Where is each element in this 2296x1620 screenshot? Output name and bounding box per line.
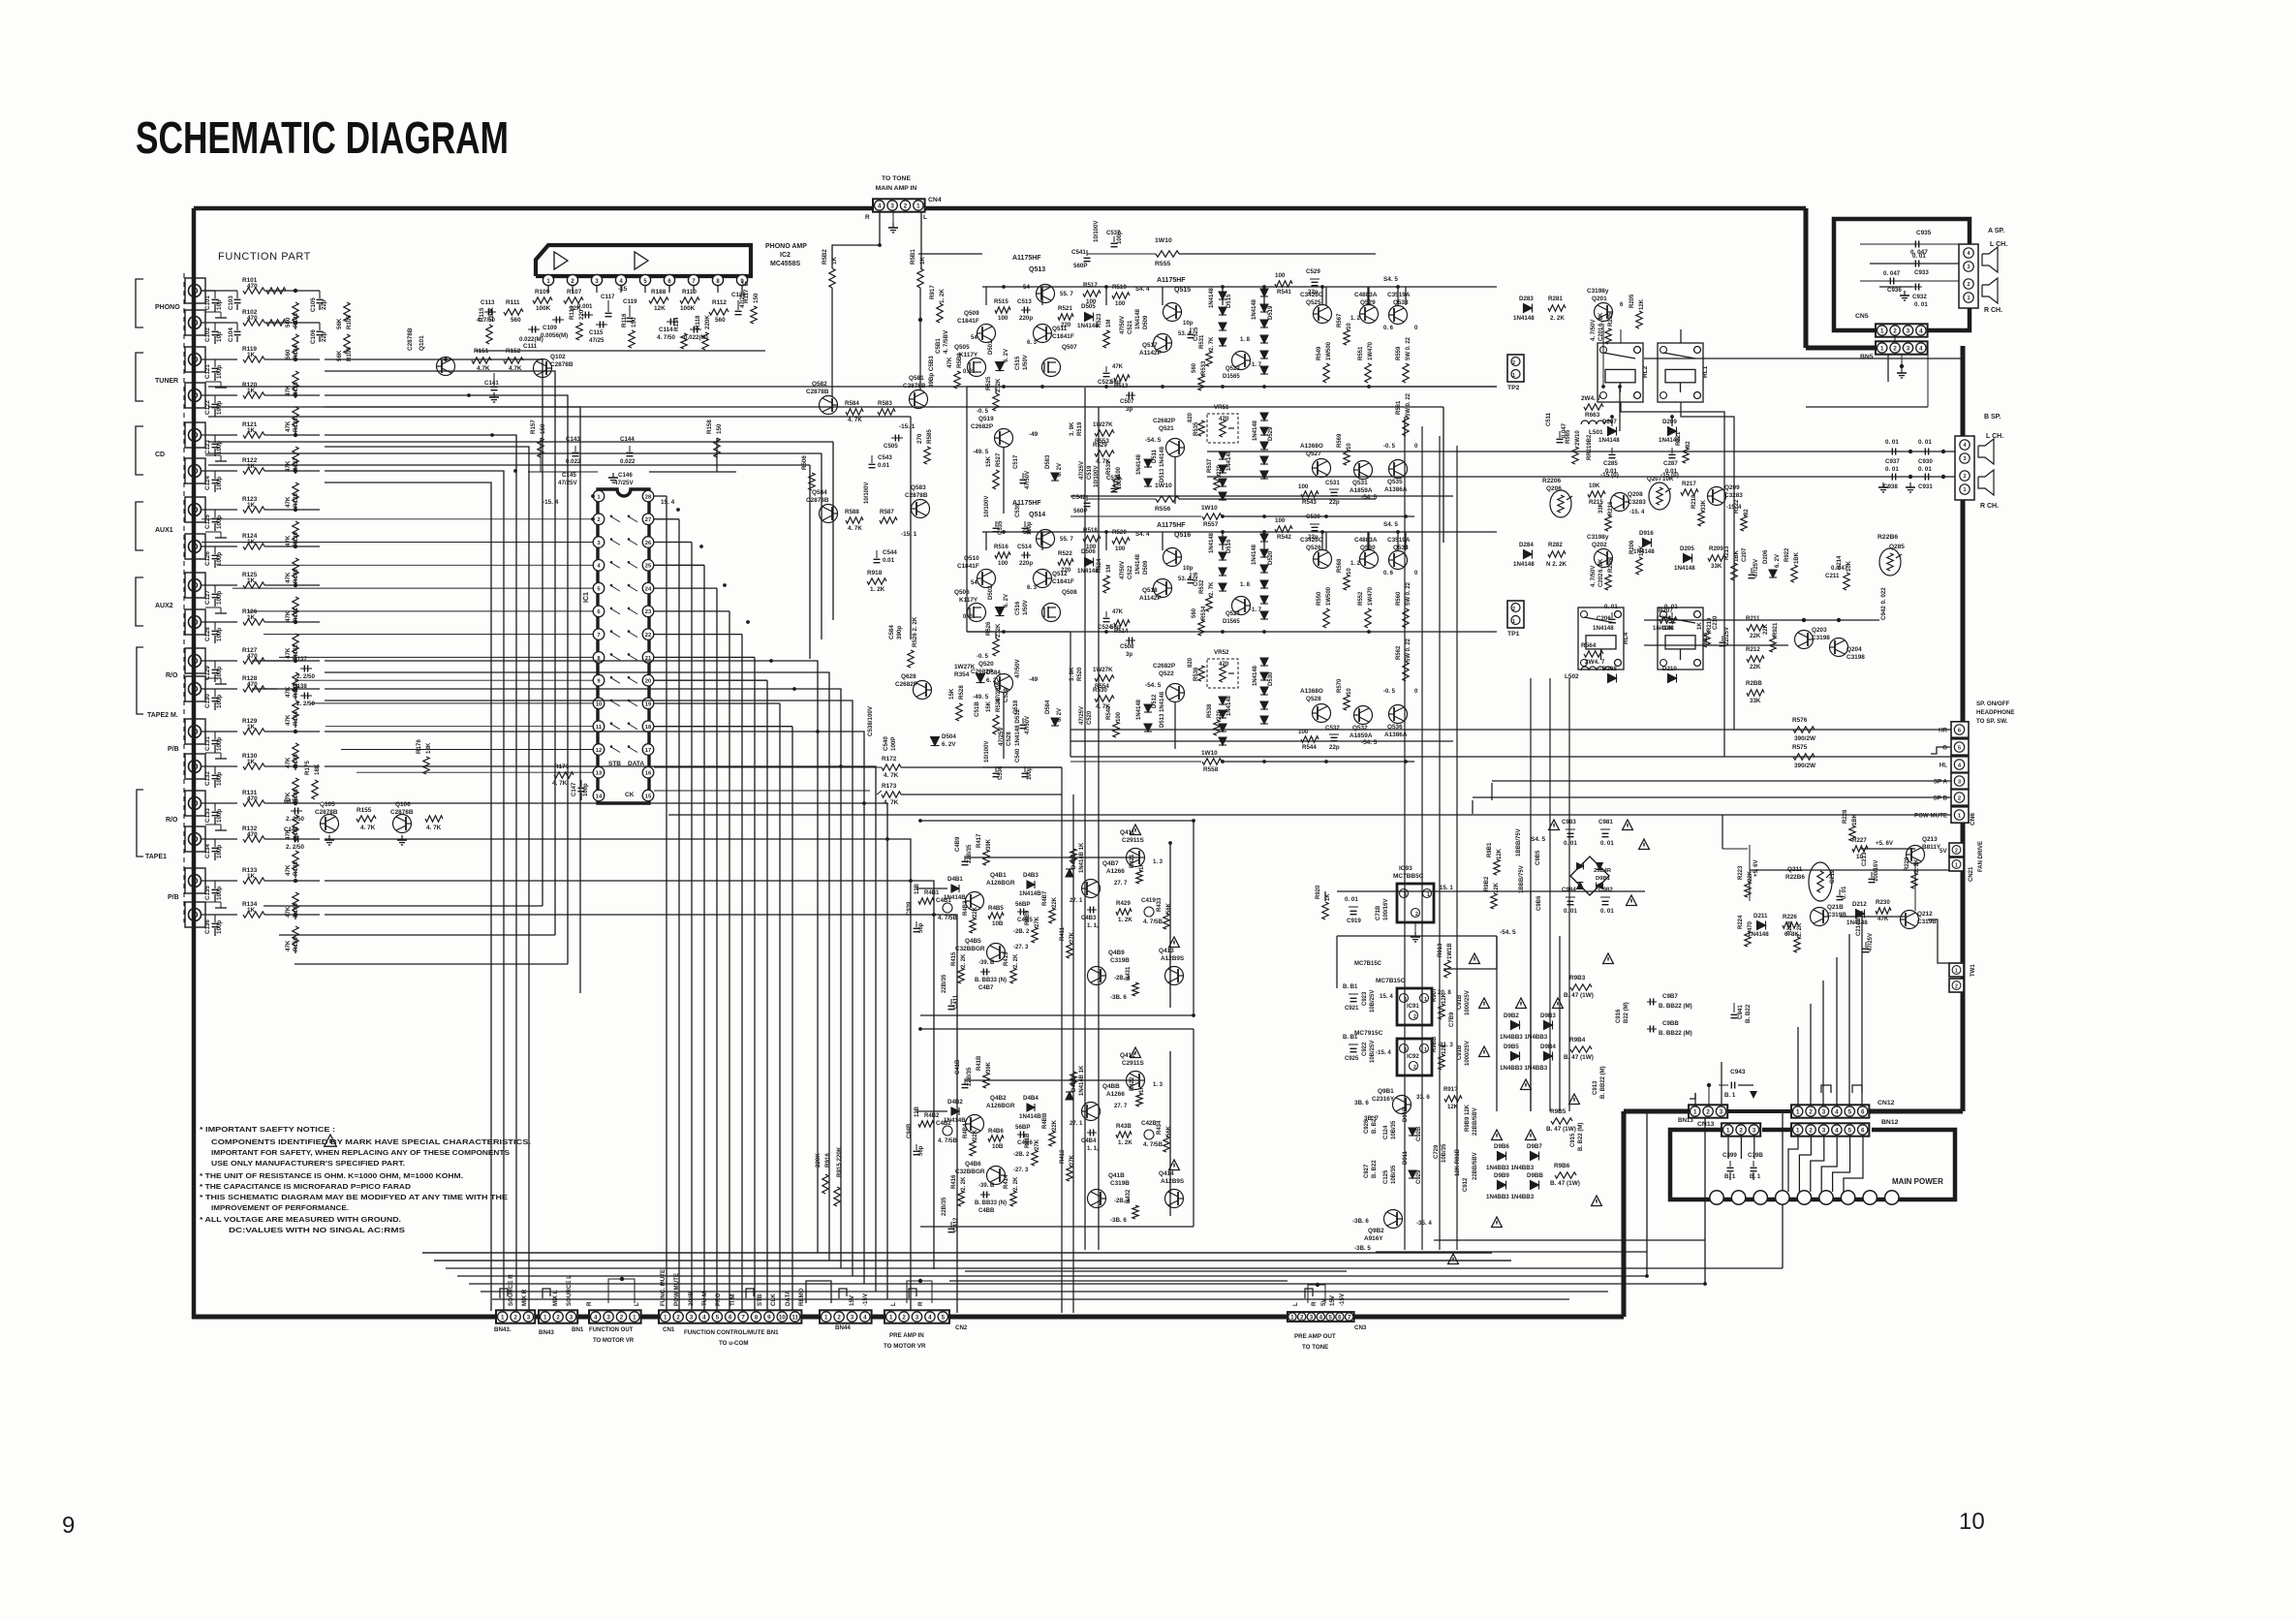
resistor R431 labels xyxy=(1132,982,1138,996)
svg-text:-27. 3: -27. 3 xyxy=(1013,1168,1029,1173)
transistor Q628 C2682P xyxy=(914,681,932,700)
capacitor C137 2.2/50 xyxy=(300,668,312,670)
svg-text:C211: C211 xyxy=(1825,573,1840,579)
potentiometer VR VR51 470 xyxy=(1207,414,1238,443)
resistor R207 33K xyxy=(1660,617,1677,623)
speaker icon B L xyxy=(1978,439,1994,464)
svg-text:R429: R429 xyxy=(1116,900,1131,907)
svg-text:BN43.: BN43. xyxy=(494,1326,512,1333)
svg-text:C399: C399 xyxy=(1722,1152,1737,1159)
svg-text:4: 4 xyxy=(1919,345,1923,352)
svg-text:2. 2K: 2. 2K xyxy=(1013,1176,1019,1191)
svg-text:C319B: C319B xyxy=(1110,957,1130,964)
resistor R106 100K xyxy=(649,297,668,303)
svg-text:CN21: CN21 xyxy=(1969,866,1974,882)
svg-text:Q522: Q522 xyxy=(1159,670,1174,677)
connector CN6 pin 1 POW MUTE xyxy=(1951,807,1969,823)
svg-text:C92B: C92B xyxy=(1416,1126,1422,1141)
svg-text:R431: R431 xyxy=(1126,966,1132,981)
resistor R521 220 xyxy=(1058,314,1073,320)
connector BN43 mix xyxy=(539,1310,577,1323)
resistor R664 2W4.7 xyxy=(1584,651,1603,657)
wire input line y=682 xyxy=(202,660,237,662)
ground input jack xyxy=(205,381,221,383)
capacitor C130 100p xyxy=(214,689,216,697)
resistor R117 1K xyxy=(751,306,757,324)
capacitor C111 0.022(M) xyxy=(528,328,540,330)
svg-text:C3198: C3198 xyxy=(1846,654,1865,661)
svg-text:1: 1 xyxy=(1726,1127,1730,1134)
svg-text:15: 15 xyxy=(645,794,652,799)
svg-text:1K: 1K xyxy=(247,577,256,584)
svg-text:A1175HF: A1175HF xyxy=(1157,277,1186,284)
wire driver block right verticals xyxy=(1193,821,1195,1015)
svg-text:-15. 4: -15. 4 xyxy=(543,499,559,506)
resistor R416 2.2K xyxy=(958,1191,964,1206)
svg-text:STB: STB xyxy=(757,1293,763,1306)
svg-text:R148: R148 xyxy=(293,861,299,876)
svg-text:4. 7/5BV: 4. 7/5BV xyxy=(943,329,949,354)
capacitor C531 22p xyxy=(1329,488,1339,490)
svg-text:R528: R528 xyxy=(996,698,1002,712)
svg-text:4. 7K: 4. 7K xyxy=(426,825,442,831)
svg-text:TO TONE: TO TONE xyxy=(1302,1344,1328,1351)
svg-text:R588: R588 xyxy=(845,509,859,515)
svg-text:R43B: R43B xyxy=(1116,1123,1132,1130)
svg-text:1. 8: 1. 8 xyxy=(1240,337,1251,343)
svg-text:-3B. 6: -3B. 6 xyxy=(1110,994,1127,1001)
svg-text:C921: C921 xyxy=(1345,1006,1359,1012)
diode D501 6.2V xyxy=(996,362,1005,371)
resistor R518 100 xyxy=(1083,536,1101,542)
svg-text:A1859A: A1859A xyxy=(1350,487,1373,494)
resistor R138 47K xyxy=(293,483,298,502)
svg-text:C3423O: C3423O xyxy=(1300,292,1323,298)
capacitor C207 47/25V xyxy=(1751,568,1753,574)
svg-text:0.01: 0.01 xyxy=(883,557,895,564)
node IC1 switch contact xyxy=(610,608,620,614)
svg-text:C540: C540 xyxy=(1015,748,1021,763)
svg-text:IC92: IC92 xyxy=(1407,1054,1419,1060)
wire A-SP enclosure xyxy=(1834,219,1970,330)
svg-text:-15. 4: -15. 4 xyxy=(1629,510,1645,515)
svg-text:6: 6 xyxy=(1861,1108,1865,1115)
svg-text:Q509: Q509 xyxy=(964,310,979,317)
svg-text:CN4: CN4 xyxy=(928,197,942,203)
capacitor C138 2.2/50 xyxy=(300,695,312,697)
svg-text:R9B3: R9B3 xyxy=(1569,975,1586,981)
svg-text:Q285: Q285 xyxy=(1889,544,1905,550)
svg-text:C2878B: C2878B xyxy=(315,809,338,816)
capacitor C937 0.01 xyxy=(1889,451,1899,452)
svg-text:3: 3 xyxy=(1720,1108,1723,1115)
svg-text:R176: R176 xyxy=(416,739,422,754)
resistor R140 47K xyxy=(293,558,298,577)
svg-text:C147: C147 xyxy=(572,782,577,796)
svg-text:R567: R567 xyxy=(1337,313,1343,327)
svg-text:2: 2 xyxy=(1512,360,1515,366)
svg-text:C128: C128 xyxy=(204,627,211,641)
ground A-SP xyxy=(1904,291,1906,296)
svg-text:R411: R411 xyxy=(1060,926,1066,941)
svg-text:CN6: CN6 xyxy=(1970,813,1976,826)
svg-text:1N4148: 1N4148 xyxy=(1077,568,1099,575)
resistor R147 47K xyxy=(293,815,298,834)
node IC1 pin 24 xyxy=(642,582,654,594)
svg-text:10/100V: 10/100V xyxy=(1094,221,1100,242)
svg-text:1N4BB3 1N4BB3: 1N4BB3 1N4BB3 xyxy=(1500,1065,1548,1072)
svg-text:R113: R113 xyxy=(569,305,575,320)
svg-text:R421: R421 xyxy=(1130,854,1135,868)
svg-text:IC2: IC2 xyxy=(780,252,791,259)
svg-text:B811Y: B811Y xyxy=(1922,844,1941,851)
svg-text:R4B6: R4B6 xyxy=(988,1128,1004,1135)
resistor R104 560 xyxy=(266,320,286,326)
svg-text:1N4148: 1N4148 xyxy=(1253,420,1258,441)
svg-text:R116: R116 xyxy=(621,313,628,327)
connector CN6 pin 2 SP B xyxy=(1951,790,1969,805)
svg-text:C943: C943 xyxy=(1730,1069,1746,1075)
svg-text:470: 470 xyxy=(247,831,258,838)
wire horizontal mid-right links xyxy=(966,387,968,632)
svg-text:7: 7 xyxy=(597,633,600,639)
resistor R133 1K xyxy=(243,878,264,884)
svg-text:4. 7/5B: 4. 7/5B xyxy=(1143,1141,1163,1148)
svg-text:Q513: Q513 xyxy=(1029,266,1045,273)
svg-text:R663: R663 xyxy=(1585,412,1600,419)
svg-text:D208: D208 xyxy=(1602,666,1617,672)
svg-text:C2316Y: C2316Y xyxy=(1372,1096,1395,1103)
svg-text:B22 (M): B22 (M) xyxy=(1624,1002,1629,1023)
node IC1 pin 11 xyxy=(593,721,605,732)
svg-text:R216: R216 xyxy=(1608,501,1614,515)
svg-text:R107: R107 xyxy=(567,289,582,296)
svg-text:2: 2 xyxy=(1955,849,1958,855)
connector input jack AUX1 xyxy=(185,497,205,522)
diode D583 6.2V xyxy=(1051,473,1059,481)
svg-text:R915 220K: R915 220K xyxy=(836,1146,843,1177)
svg-text:R533: R533 xyxy=(1201,360,1207,375)
svg-text:C543: C543 xyxy=(878,454,892,461)
svg-text:D1565: D1565 xyxy=(1223,619,1240,625)
svg-text:1: 1 xyxy=(543,1314,547,1321)
svg-text:470: 470 xyxy=(247,795,258,802)
node IC2 pin 4 xyxy=(615,274,626,285)
svg-text:R564: R564 xyxy=(1581,642,1597,649)
capacitor C938 0.01 xyxy=(1889,476,1899,478)
node IC1 pin 13 xyxy=(593,766,605,778)
svg-text:47K: 47K xyxy=(1112,609,1124,615)
svg-text:0. 01: 0. 01 xyxy=(1564,840,1577,847)
resistor R916 220K xyxy=(822,1174,828,1194)
svg-text:4: 4 xyxy=(1919,327,1923,334)
svg-text:Q524: Q524 xyxy=(1226,611,1240,617)
svg-text:0.022(M): 0.022(M) xyxy=(519,336,543,343)
svg-text:Q4BB: Q4BB xyxy=(1102,1083,1120,1090)
svg-text:REMO: REMO xyxy=(798,1288,805,1306)
node IC1 switch contact xyxy=(610,747,620,753)
svg-text:R105: R105 xyxy=(346,315,353,329)
svg-text:A1368O: A1368O xyxy=(1300,443,1323,450)
svg-text:33K: 33K xyxy=(1701,499,1707,511)
svg-text:C138: C138 xyxy=(293,683,307,690)
svg-text:3: 3 xyxy=(1907,345,1910,352)
svg-text:1W27K: 1W27K xyxy=(1093,667,1113,673)
svg-text:TAPE2 M.: TAPE2 M. xyxy=(147,712,178,719)
svg-text:6. 2V: 6. 2V xyxy=(1004,594,1009,607)
svg-text:R575: R575 xyxy=(1792,744,1808,751)
svg-text:6: 6 xyxy=(1338,1314,1342,1321)
ground input jack xyxy=(205,454,221,456)
svg-text:TO SP. SW.: TO SP. SW. xyxy=(1976,718,2008,725)
svg-text:C2911S: C2911S xyxy=(1122,837,1144,844)
wire speaker feed SP A upper xyxy=(1644,358,1963,359)
capacitor C140 2.2/50 xyxy=(291,838,302,840)
capacitor C544 0.01 xyxy=(876,550,878,558)
resistor R543 100 xyxy=(1301,491,1319,497)
svg-text:R140: R140 xyxy=(293,569,299,583)
svg-text:1N4148: 1N4148 xyxy=(1252,544,1257,565)
svg-text:2: 2 xyxy=(1893,345,1897,352)
svg-text:C929: C929 xyxy=(1416,1169,1422,1184)
svg-text:AUX2: AUX2 xyxy=(155,603,173,609)
resistor R413 2.2K xyxy=(1010,968,1016,983)
power transformer block MAIN POWER xyxy=(1670,1130,1955,1199)
svg-text:Q9B1: Q9B1 xyxy=(1378,1088,1394,1095)
potentiometer VR VR52 470 xyxy=(1207,659,1238,688)
wire loop over BN1 xyxy=(608,1279,635,1303)
resistor R544 100 xyxy=(1301,736,1319,742)
svg-text:47K: 47K xyxy=(285,940,292,951)
resistor R982 2.2 xyxy=(1491,893,1497,909)
capacitor C4B6 560P xyxy=(1017,1134,1027,1136)
node IC1 pin 20 xyxy=(642,674,654,686)
svg-text:1: 1 xyxy=(1512,619,1515,625)
svg-text:270: 270 xyxy=(916,433,923,444)
svg-text:R22B6: R22B6 xyxy=(1877,534,1898,541)
svg-text:56K: 56K xyxy=(1166,902,1172,914)
capacitor C982 0.01 xyxy=(1600,896,1610,898)
resistor R104 560 xyxy=(293,334,298,354)
svg-text:1. 2K: 1. 2K xyxy=(939,289,946,303)
node IC1 pin 6 xyxy=(593,606,605,617)
resistor R557 1W10 xyxy=(1202,514,1222,519)
svg-text:1: 1 xyxy=(633,1314,636,1321)
svg-text:26: 26 xyxy=(645,541,652,546)
svg-text:R4B1: R4B1 xyxy=(924,890,940,896)
diode D212 1N4148 xyxy=(1856,910,1865,919)
svg-text:Q516: Q516 xyxy=(1174,532,1191,539)
diode D505 1N4148 xyxy=(1085,313,1094,322)
svg-text:Q41B: Q41B xyxy=(1108,1172,1125,1179)
capacitor C511 0.047 xyxy=(1559,431,1561,438)
svg-text:TO TONE: TO TONE xyxy=(882,175,911,182)
resistor R663 2W4.7 xyxy=(1584,404,1603,410)
svg-text:1K: 1K xyxy=(247,907,256,914)
resistor R282 2.2K xyxy=(1548,551,1566,557)
wire speaker feed B lower xyxy=(1207,476,1955,478)
svg-text:R114: R114 xyxy=(673,317,680,331)
svg-text:R9B1: R9B1 xyxy=(1487,842,1493,857)
diode D514 1N4148 xyxy=(1144,724,1152,732)
capacitor C399 0.1 xyxy=(1729,1161,1731,1167)
resistor R105 56K xyxy=(344,302,350,322)
capacitor C212 0.01 xyxy=(1839,889,1841,895)
svg-text:R506: R506 xyxy=(801,455,808,470)
svg-text:2: 2 xyxy=(1413,1065,1416,1071)
svg-text:TUNER: TUNER xyxy=(155,378,178,385)
svg-text:R110: R110 xyxy=(682,289,697,296)
svg-text:3: 3 xyxy=(527,1314,531,1321)
connector BN1 FUNCTION OUT xyxy=(589,1310,641,1323)
svg-text:1: 1 xyxy=(1796,1108,1800,1115)
resistor R113 220 xyxy=(576,323,582,340)
svg-text:R: R xyxy=(1311,1301,1318,1306)
svg-text:1N4148: 1N4148 xyxy=(1674,565,1695,572)
svg-text:15K: 15K xyxy=(986,701,992,712)
resistor R134 1K xyxy=(243,912,264,918)
svg-text:6. 2V: 6. 2V xyxy=(1057,463,1063,477)
svg-text:100K: 100K xyxy=(536,305,551,312)
capacitor C105 22p xyxy=(319,291,321,298)
svg-text:D9B7: D9B7 xyxy=(1527,1143,1542,1150)
diode D906 1N4003 xyxy=(1498,1152,1506,1161)
svg-text:1W10: 1W10 xyxy=(1155,483,1172,489)
svg-text:CK: CK xyxy=(625,792,635,798)
svg-text:Q4B7: Q4B7 xyxy=(1102,860,1119,867)
svg-text:C9B5: C9B5 xyxy=(1536,850,1541,865)
node IC2 pin 1 xyxy=(543,274,553,285)
wire input line y=564 xyxy=(202,545,237,547)
svg-text:1. 3: 1. 3 xyxy=(1153,1082,1164,1088)
diode D211 1N4148 xyxy=(1757,921,1766,930)
diode ladder D519 xyxy=(1260,289,1268,296)
svg-text:R922: R922 xyxy=(1784,547,1790,562)
transistor Q213 B811Y xyxy=(1907,846,1925,864)
svg-text:5W 0. 22: 5W 0. 22 xyxy=(1406,392,1412,417)
svg-text:100p: 100p xyxy=(216,920,223,934)
svg-text:R103: R103 xyxy=(293,313,299,327)
svg-text:18K: 18K xyxy=(425,742,432,754)
transistor Q982 A916Y xyxy=(1384,1210,1403,1229)
svg-text:10B/25V: 10B/25V xyxy=(1370,1041,1376,1063)
resistor R219 1K xyxy=(1704,632,1710,647)
svg-text:0. 01: 0. 01 xyxy=(1600,908,1614,915)
svg-text:Q517: Q517 xyxy=(1142,342,1158,349)
resistor R103 560 xyxy=(293,302,298,322)
ground input jack xyxy=(205,752,221,754)
svg-text:C2878B: C2878B xyxy=(550,361,574,368)
svg-text:100K: 100K xyxy=(680,305,696,312)
svg-text:1K: 1K xyxy=(1139,1085,1145,1093)
svg-text:DC:VALUES WITH NO SINGAL: DC:VALUES WITH NO SINGAL AC:RMS xyxy=(229,1226,405,1234)
svg-text:10: 10 xyxy=(1347,323,1352,329)
svg-text:C517: C517 xyxy=(1013,454,1019,469)
node IC1 pin 16 xyxy=(642,766,654,778)
svg-text:27K: 27K xyxy=(1070,1154,1075,1166)
wire main frame left border xyxy=(192,208,197,1319)
svg-text:R118: R118 xyxy=(695,315,701,329)
svg-text:Q21B: Q21B xyxy=(1827,904,1844,911)
svg-text:1N4148: 1N4148 xyxy=(1513,315,1535,322)
resistor R107 12K xyxy=(564,297,583,303)
svg-text:C419: C419 xyxy=(1141,897,1156,904)
ground BN5 xyxy=(1901,355,1903,366)
svg-text:1: 1 xyxy=(1424,997,1427,1003)
svg-text:R918: R918 xyxy=(867,570,883,576)
svg-text:2. 2/50: 2. 2/50 xyxy=(286,844,304,851)
wire upper input elbows xyxy=(325,359,543,906)
svg-text:9: 9 xyxy=(767,1314,771,1321)
svg-text:RL2: RL2 xyxy=(1642,365,1649,378)
svg-text:C515: C515 xyxy=(1015,356,1021,370)
svg-text:2: 2 xyxy=(1893,327,1897,334)
svg-text:47/25: 47/25 xyxy=(589,337,605,344)
diode D909 1N4003 xyxy=(1498,1181,1506,1190)
svg-text:56K: 56K xyxy=(1166,1125,1172,1137)
svg-text:B. B1: B. B1 xyxy=(1343,984,1358,990)
svg-text:4: 4 xyxy=(928,1314,932,1321)
svg-text:C109: C109 xyxy=(543,325,557,331)
svg-text:100/16V: 100/16V xyxy=(1383,899,1389,920)
connector CN6 pin 4 HL xyxy=(1951,757,1969,772)
resistor R434 56K xyxy=(1164,1137,1169,1152)
svg-text:2. 2/50: 2. 2/50 xyxy=(296,673,315,680)
connector CN2 PRE AMP IN xyxy=(884,1310,949,1323)
svg-text:Q581: Q581 xyxy=(909,375,924,382)
svg-text:C32BBGR: C32BBGR xyxy=(955,946,985,952)
warning driver xyxy=(1131,1047,1141,1058)
wire input line y=909 xyxy=(202,880,237,882)
node junction dots on rails xyxy=(1002,285,1006,289)
svg-text:R531: R531 xyxy=(1199,334,1205,349)
connector input jack PHONO xyxy=(185,278,205,303)
svg-text:56BP: 56BP xyxy=(1015,901,1030,908)
svg-text:B. BB33 (N): B. BB33 (N) xyxy=(975,1200,1007,1206)
svg-text:27. 1: 27. 1 xyxy=(1070,1121,1083,1127)
svg-text:6. 3: 6. 3 xyxy=(1027,585,1038,591)
wire relay block risers xyxy=(1602,324,1604,387)
connector CN6 pin 6 HR xyxy=(1951,722,1969,737)
wire input line y=300 xyxy=(202,290,237,292)
svg-text:C982: C982 xyxy=(1598,887,1613,893)
svg-text:R549: R549 xyxy=(1317,346,1322,360)
transistor Q106 C2878B xyxy=(393,815,412,833)
wire phono feed lines xyxy=(202,290,215,292)
capacitor C411 220/35 xyxy=(950,999,952,1005)
resistor R560 5W0.22 xyxy=(1403,608,1409,628)
svg-text:R9B2: R9B2 xyxy=(1484,876,1490,891)
svg-text:3: 3 xyxy=(1822,1127,1826,1134)
svg-text:1. 2K: 1. 2K xyxy=(1118,1139,1132,1146)
node IC1 pin 26 xyxy=(642,537,654,548)
svg-text:39Bp C5B3: 39Bp C5B3 xyxy=(928,356,935,388)
svg-text:0: 0 xyxy=(1414,571,1418,576)
resistor R918 1.2K xyxy=(867,578,886,584)
resistor R42B 1K xyxy=(1070,1072,1076,1085)
resistor R558 1W10 xyxy=(1202,759,1222,764)
svg-text:220K: 220K xyxy=(488,307,495,322)
capacitor C931 0.01 xyxy=(1922,476,1932,478)
svg-text:R/O: R/O xyxy=(166,817,178,824)
capacitor C518 47/50V xyxy=(1022,718,1024,724)
resistor R538 220 xyxy=(1214,720,1220,735)
ground Q105 xyxy=(328,835,330,840)
ground hooks bottom row xyxy=(500,1289,508,1298)
wire input line y=604 xyxy=(202,584,237,586)
svg-text:VR51: VR51 xyxy=(1214,404,1229,411)
capacitor C538 100p xyxy=(1113,482,1115,487)
